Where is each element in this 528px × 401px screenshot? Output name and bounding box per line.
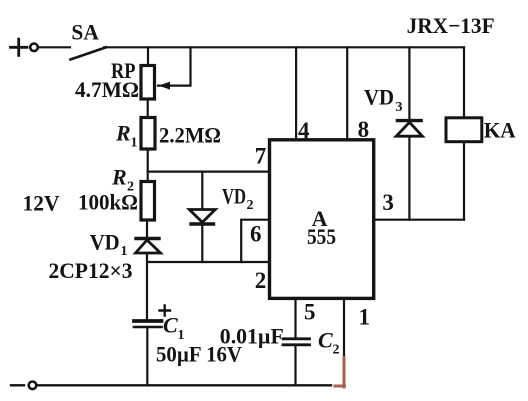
svg-text:5: 5 — [304, 300, 316, 325]
svg-text:4: 4 — [298, 118, 310, 143]
label C1 — [163, 313, 185, 344]
svg-text:12V: 12V — [23, 191, 60, 216]
resistor R1 — [141, 118, 155, 150]
label VD2 — [222, 184, 254, 214]
svg-text:2: 2 — [333, 343, 340, 358]
wire relay to pin3 line — [463, 142, 465, 220]
svg-text:100kΩ: 100kΩ — [78, 190, 138, 215]
svg-text:SA: SA — [71, 20, 99, 45]
svg-text:3: 3 — [396, 100, 403, 115]
label VD3 — [364, 85, 403, 116]
svg-text:2: 2 — [247, 198, 254, 213]
wire pin5 — [294, 298, 296, 337]
wire rail to VD3 — [408, 47, 410, 119]
wire VD2 to pin2 line — [201, 224, 203, 262]
svg-text:C: C — [163, 313, 178, 338]
label R1 — [115, 121, 138, 151]
node plus terminal — [11, 39, 38, 55]
svg-text:2.2MΩ: 2.2MΩ — [159, 123, 221, 148]
node minus terminal — [11, 382, 36, 390]
wire rail to relay — [463, 47, 465, 118]
svg-text:555: 555 — [307, 224, 336, 249]
svg-text:R: R — [115, 121, 131, 146]
wire rail to RP — [147, 47, 149, 66]
wire pin6 stub — [241, 220, 269, 262]
wire R1 to junction — [147, 149, 149, 182]
svg-text:VD: VD — [364, 85, 394, 110]
wire VD3 to pin3 line — [408, 136, 410, 220]
svg-text:JRX−13F: JRX−13F — [407, 13, 495, 38]
op-amp U1 555 timer box — [270, 140, 374, 299]
svg-text:6: 6 — [250, 222, 262, 247]
wire pin1 — [343, 298, 345, 357]
svg-text:VD: VD — [222, 184, 246, 209]
wire top rail — [104, 46, 464, 48]
wire C1 to bottom rail — [146, 328, 148, 386]
svg-text:4.7MΩ: 4.7MΩ — [75, 77, 139, 102]
diode VD1 — [136, 239, 161, 254]
RP wiper arrowhead — [159, 82, 171, 90]
svg-text:0.01µF: 0.01µF — [220, 324, 284, 349]
label R2 — [111, 165, 134, 195]
capacitor C2 — [283, 339, 310, 345]
wire pin7 line to VD2 — [201, 172, 203, 210]
svg-text:8: 8 — [358, 117, 370, 142]
capacitor C1 — [134, 321, 162, 327]
svg-text:C: C — [318, 328, 333, 353]
svg-text:7: 7 — [255, 144, 267, 169]
wire pin3 line — [374, 219, 464, 221]
switch SA blade — [71, 47, 107, 59]
wire C2 to bottom rail — [294, 346, 296, 386]
wire from plus terminal to switch — [39, 46, 71, 48]
wire RP to R1 — [147, 99, 149, 118]
C1 plus polarity — [160, 306, 171, 316]
svg-text:1: 1 — [121, 244, 128, 259]
diode VD3 — [396, 121, 422, 137]
relay coil KA — [446, 118, 482, 142]
wire VD1 to C1 — [146, 253, 148, 320]
svg-text:1: 1 — [359, 305, 371, 330]
resistor R2 — [141, 182, 155, 221]
label C2 — [318, 328, 340, 358]
svg-text:2CP12×3: 2CP12×3 — [49, 258, 133, 283]
svg-text:R: R — [111, 165, 127, 190]
wire pin8 — [346, 47, 348, 140]
svg-text:3: 3 — [382, 190, 394, 215]
resistor RP — [141, 66, 155, 100]
wire pin4 — [295, 47, 297, 140]
label VD1 — [90, 230, 128, 260]
wire bottom rail — [37, 384, 332, 386]
svg-text:VD: VD — [90, 230, 120, 255]
svg-text:1: 1 — [131, 136, 138, 151]
svg-text:KA: KA — [484, 118, 516, 143]
RP wiper arm wire — [158, 47, 191, 85]
wire pin7 line — [148, 171, 270, 173]
wire R2 to VD1 — [146, 220, 148, 237]
wire pin2 line — [147, 261, 270, 263]
wire pin1 red segment — [335, 358, 344, 388]
svg-text:2: 2 — [255, 268, 267, 293]
diode VD2 — [189, 210, 215, 225]
